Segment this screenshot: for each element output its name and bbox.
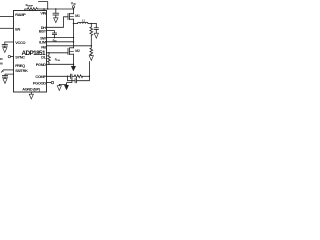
inductor L1 <box>74 23 78 25</box>
wire: RAMP pin left <box>0 16 14 18</box>
transistor M2 low-side MOSFET <box>70 47 74 49</box>
svg-text:RCS0: RCS0 <box>55 58 60 62</box>
node: SW-inductor junction <box>73 23 74 24</box>
capacitor CVCCO <box>5 42 14 44</box>
wire: PGND pin <box>47 63 74 65</box>
svg-text:BST: BST <box>39 29 47 34</box>
svg-text:VCCO: VCCO <box>15 40 25 45</box>
svg-text:PGOOD: PGOOD <box>33 81 46 86</box>
wire: VIN pin drop <box>43 9 45 11</box>
svg-text:RAMP: RAMP <box>15 12 26 17</box>
svg-text:SS/TRK: SS/TRK <box>15 68 28 73</box>
node: SWwire-SWnode junction <box>73 37 74 38</box>
capacitor CIN <box>55 9 57 13</box>
node: rail-CIN junction <box>55 8 56 9</box>
wire: SW node vertical <box>73 19 75 48</box>
svg-text:ADP1851: ADP1851 <box>21 50 46 57</box>
ground (filled, comp) <box>66 83 68 86</box>
wire: PGOOD pin <box>47 82 52 84</box>
terminal PGOOD <box>51 81 54 84</box>
svg-text:M1: M1 <box>75 14 80 18</box>
resistor RC <box>74 75 82 78</box>
svg-text:RRAMP: RRAMP <box>26 3 34 8</box>
capacitor CC <box>69 74 71 78</box>
svg-text:IN: IN <box>0 57 3 61</box>
wire: top VIN rail <box>25 9 28 11</box>
node: CBST-SW junction <box>54 37 55 38</box>
wire: ground cluster bottom middle <box>59 78 72 85</box>
node: ILIM-SWnode junction <box>73 41 74 42</box>
capacitor CSS <box>5 74 14 75</box>
svg-text:M2: M2 <box>75 49 80 53</box>
node: rail end junction <box>73 8 74 9</box>
terminal SYNC <box>8 55 10 57</box>
wire: comp vertical riser <box>88 62 90 77</box>
capacitor COUT <box>95 24 97 28</box>
wire: DH to M1 gate <box>47 17 69 28</box>
svg-text:VIN: VIN <box>40 10 46 15</box>
wire: BST pin <box>47 31 55 33</box>
ground (RBOT) <box>89 56 93 61</box>
svg-text:60: 60 <box>0 61 3 65</box>
svg-text:PGND: PGND <box>36 62 47 67</box>
svg-text:COMP: COMP <box>35 74 46 79</box>
svg-text:L1: L1 <box>82 19 85 23</box>
wire: DL pin to M2 gate <box>47 52 69 54</box>
node: COMP junction <box>67 76 68 77</box>
resistor RFREQ <box>4 69 14 71</box>
wire: COMP pin <box>47 75 71 77</box>
wire: FB pin to divider <box>47 45 92 47</box>
resistor RBOT feedback lower <box>90 48 93 55</box>
wire: rail from RRAMP to M1 drain <box>38 8 74 10</box>
wire: EN pin left <box>0 27 14 29</box>
ground (CSS) <box>3 79 7 84</box>
svg-text:AGND (EP): AGND (EP) <box>22 86 41 91</box>
resistor RCS0 <box>48 53 51 65</box>
capacitor CBST <box>52 32 56 34</box>
ground (CVCCO) <box>3 48 7 53</box>
ground (hollow, comp) <box>57 86 61 91</box>
transistor M1 high-side MOSFET <box>73 9 75 14</box>
node: DL-RCS junction <box>48 52 49 53</box>
resistor RRAMP <box>28 8 38 11</box>
svg-text:EN: EN <box>15 26 20 31</box>
IC U1 ADP1851 body <box>14 11 47 93</box>
wire: ILIM pin <box>47 41 74 43</box>
capacitor CPAR branch <box>68 76 76 80</box>
wire: stub annotation L at top <box>39 2 48 9</box>
ground (EP below IC) <box>30 92 32 94</box>
node: comp net junction <box>89 76 90 77</box>
node: RCS-PGND junction <box>48 64 49 65</box>
node: FB divider junction <box>91 45 92 46</box>
svg-text:FB: FB <box>41 45 46 50</box>
ground (COUT) <box>94 33 98 38</box>
node: PGND-M2source junction <box>73 64 74 65</box>
wire: SW pin <box>47 37 74 39</box>
ground PGND (filled) <box>73 64 75 66</box>
svg-text:VIN: VIN <box>71 1 76 6</box>
terminal VIN <box>72 6 74 8</box>
node: rail-stub junction <box>47 8 48 9</box>
node: VOUT junction <box>91 23 92 24</box>
resistor RTOP feedback upper <box>90 24 92 27</box>
node: rail-VINpin junction <box>43 8 44 9</box>
ground (CIN) <box>54 18 58 23</box>
